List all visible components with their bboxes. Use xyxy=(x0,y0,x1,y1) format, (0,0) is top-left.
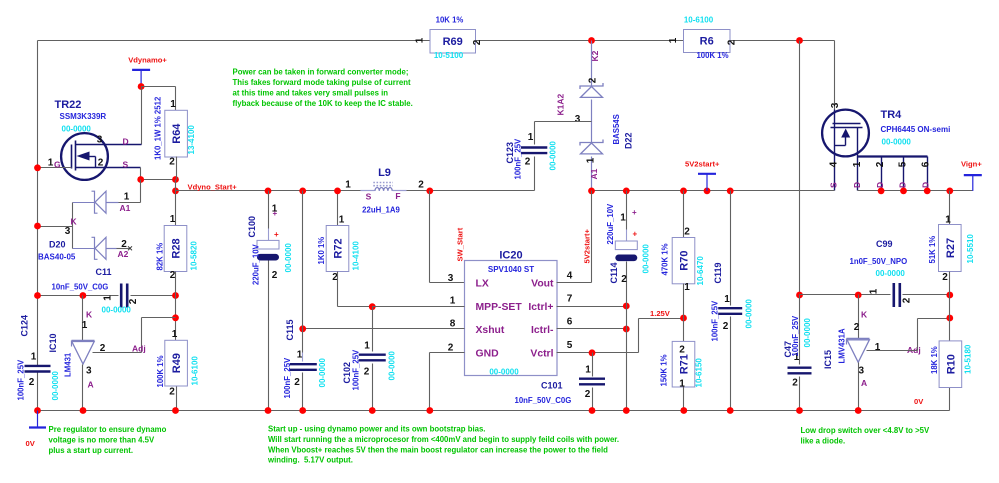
svg-text:D: D xyxy=(123,137,129,147)
svg-text:IC20: IC20 xyxy=(499,250,522,262)
svg-text:82K 1%: 82K 1% xyxy=(156,243,165,271)
svg-text:2: 2 xyxy=(169,157,175,168)
svg-text:2: 2 xyxy=(854,322,860,333)
svg-text:R6: R6 xyxy=(700,36,714,48)
svg-text:BAS40-05: BAS40-05 xyxy=(38,253,76,262)
svg-text:00-0000: 00-0000 xyxy=(745,299,754,329)
svg-text:470K 1%: 470K 1% xyxy=(661,243,670,275)
svg-text:2: 2 xyxy=(294,377,300,388)
svg-text:0V: 0V xyxy=(26,439,36,448)
svg-text:00-0000: 00-0000 xyxy=(51,371,60,401)
svg-text:R10: R10 xyxy=(945,354,957,374)
svg-text:L9: L9 xyxy=(378,167,391,179)
svg-text:When Vboost+ reaches 5V then t: When Vboost+ reaches 5V then the main bo… xyxy=(268,445,608,454)
svg-text:D: D xyxy=(852,182,862,188)
svg-text:Start up - using dynamo power: Start up - using dynamo power and its ow… xyxy=(268,425,485,434)
svg-text:2: 2 xyxy=(588,77,599,83)
svg-text:2: 2 xyxy=(169,387,175,398)
svg-text:8: 8 xyxy=(450,318,456,329)
svg-text:1K0_1W 1% 2512: 1K0_1W 1% 2512 xyxy=(154,96,163,160)
svg-text:C119: C119 xyxy=(713,262,723,283)
svg-text:10nF_50V_C0G: 10nF_50V_C0G xyxy=(515,396,572,405)
svg-text:Will start running the a micro: Will start running the a microprocesor f… xyxy=(268,435,619,444)
svg-text:2: 2 xyxy=(621,274,627,285)
svg-text:S: S xyxy=(829,182,839,188)
svg-text:220uF_10V: 220uF_10V xyxy=(606,203,615,245)
svg-text:1: 1 xyxy=(875,342,881,353)
svg-text:1n0F_50V_NPO: 1n0F_50V_NPO xyxy=(850,257,908,266)
svg-text:1: 1 xyxy=(945,215,951,226)
svg-text:A: A xyxy=(861,378,867,388)
svg-text:Power can be taken in forward: Power can be taken in forward converter … xyxy=(233,68,409,77)
svg-text:C99: C99 xyxy=(876,239,893,249)
svg-text:1: 1 xyxy=(528,132,534,143)
svg-text:C102: C102 xyxy=(342,362,352,384)
svg-text:10-5820: 10-5820 xyxy=(190,241,199,271)
svg-text:3: 3 xyxy=(859,366,865,377)
svg-text:2: 2 xyxy=(727,39,738,45)
svg-text:R69: R69 xyxy=(443,36,463,48)
svg-text:1: 1 xyxy=(124,192,130,203)
svg-text:R71: R71 xyxy=(679,354,691,374)
svg-text:00-0000: 00-0000 xyxy=(318,358,327,388)
svg-text:2: 2 xyxy=(29,377,35,388)
svg-text:00-0000: 00-0000 xyxy=(882,138,912,147)
svg-text:1: 1 xyxy=(82,320,88,331)
svg-text:100K 1%: 100K 1% xyxy=(696,51,728,60)
svg-text:D: D xyxy=(921,182,931,188)
svg-text:Vign+: Vign+ xyxy=(961,160,982,169)
svg-text:R28: R28 xyxy=(171,238,183,258)
svg-text:Vdynamo+: Vdynamo+ xyxy=(128,56,167,65)
svg-text:10nF_50V_C0G: 10nF_50V_C0G xyxy=(52,283,109,292)
svg-text:1: 1 xyxy=(339,215,345,226)
svg-text:10-5510: 10-5510 xyxy=(966,234,975,264)
svg-text:1: 1 xyxy=(679,379,685,390)
svg-text:10-6470: 10-6470 xyxy=(696,256,705,286)
svg-text:6: 6 xyxy=(921,161,932,167)
svg-text:C114: C114 xyxy=(609,262,619,283)
svg-text:2: 2 xyxy=(364,367,370,378)
svg-text:00-0000: 00-0000 xyxy=(284,243,293,273)
svg-text:3: 3 xyxy=(830,102,841,108)
svg-text:D: D xyxy=(875,182,885,188)
svg-text:1: 1 xyxy=(668,37,679,43)
svg-text:1: 1 xyxy=(170,99,176,110)
svg-text:Ictrl+: Ictrl+ xyxy=(528,302,553,313)
svg-text:R64: R64 xyxy=(171,123,183,144)
svg-text:GND: GND xyxy=(476,349,500,360)
svg-text:1: 1 xyxy=(869,288,880,294)
svg-text:2: 2 xyxy=(684,227,690,238)
svg-text:2: 2 xyxy=(902,297,913,303)
svg-text:CPH6445 ON-semi: CPH6445 ON-semi xyxy=(881,125,951,134)
svg-text:2: 2 xyxy=(98,158,104,169)
svg-text:3: 3 xyxy=(448,273,454,284)
svg-text:BAS54S: BAS54S xyxy=(612,114,621,144)
svg-text:6: 6 xyxy=(567,316,573,327)
svg-text:TR22: TR22 xyxy=(55,99,82,111)
svg-text:S: S xyxy=(366,192,372,202)
svg-text:2: 2 xyxy=(679,345,685,356)
svg-text:C11: C11 xyxy=(96,267,112,277)
svg-text:2: 2 xyxy=(128,298,139,304)
svg-text:10-5180: 10-5180 xyxy=(964,344,973,374)
svg-text:1K0 1%: 1K0 1% xyxy=(317,237,326,265)
svg-text:2: 2 xyxy=(792,378,798,389)
svg-text:00-0000: 00-0000 xyxy=(62,125,92,134)
svg-text:Vout: Vout xyxy=(531,279,554,290)
svg-text:F: F xyxy=(395,191,400,201)
svg-text:1: 1 xyxy=(586,157,597,163)
svg-text:1: 1 xyxy=(31,352,37,363)
svg-text:Adj: Adj xyxy=(132,344,146,354)
svg-text:00-0000: 00-0000 xyxy=(876,269,906,278)
svg-text:2: 2 xyxy=(170,270,176,281)
svg-text:A1: A1 xyxy=(120,203,131,213)
svg-text:13-4100: 13-4100 xyxy=(187,125,196,155)
svg-text:voltage is no more than 4.5V: voltage is no more than 4.5V xyxy=(49,436,156,445)
svg-text:18K 1%: 18K 1% xyxy=(930,346,939,374)
svg-text:winding. 5.17V output.: winding. 5.17V output. xyxy=(267,456,353,465)
svg-text:1: 1 xyxy=(103,295,114,301)
svg-text:10-4100: 10-4100 xyxy=(352,241,361,271)
svg-text:Vctrl: Vctrl xyxy=(530,349,553,360)
svg-text:1: 1 xyxy=(852,161,863,167)
svg-text:at this time and takes very sm: at this time and takes very small pulses… xyxy=(233,89,389,98)
svg-text:D20: D20 xyxy=(49,240,66,250)
svg-text:+: + xyxy=(632,208,637,217)
svg-text:flyback because of the 10K to: flyback because of the 10K to keep the I… xyxy=(233,99,413,108)
svg-text:LM431: LM431 xyxy=(64,352,73,377)
svg-text:1: 1 xyxy=(48,158,54,169)
svg-text:SPV1040 ST: SPV1040 ST xyxy=(488,265,534,274)
svg-text:SW_Start: SW_Start xyxy=(456,227,465,261)
svg-text:22uH_1A9: 22uH_1A9 xyxy=(362,206,400,215)
svg-text:2: 2 xyxy=(723,321,729,332)
svg-text:D: D xyxy=(898,182,908,188)
svg-text:MPP-SET: MPP-SET xyxy=(476,302,523,313)
svg-text:1: 1 xyxy=(415,37,426,43)
svg-text:K: K xyxy=(86,310,93,320)
svg-text:00-0000: 00-0000 xyxy=(803,318,812,348)
svg-text:2: 2 xyxy=(418,180,424,191)
svg-text:100nF_25V: 100nF_25V xyxy=(514,138,523,180)
svg-text:220uF_10V: 220uF_10V xyxy=(252,243,261,285)
svg-text:00-0000: 00-0000 xyxy=(642,244,651,274)
svg-text:G: G xyxy=(54,160,61,170)
svg-text:LX: LX xyxy=(476,279,489,290)
svg-text:100nF_25V: 100nF_25V xyxy=(352,349,361,391)
svg-text:C115: C115 xyxy=(285,319,295,340)
svg-text:+: + xyxy=(633,230,638,239)
svg-text:10-6100: 10-6100 xyxy=(191,356,200,386)
svg-text:1.25V: 1.25V xyxy=(650,309,671,318)
svg-text:1: 1 xyxy=(364,341,370,352)
svg-text:3: 3 xyxy=(86,366,92,377)
svg-text:5V2start+: 5V2start+ xyxy=(583,229,592,264)
svg-text:1: 1 xyxy=(585,365,591,376)
svg-text:2: 2 xyxy=(875,161,886,167)
svg-text:R72: R72 xyxy=(333,238,345,258)
svg-text:10-6150: 10-6150 xyxy=(695,358,704,388)
svg-text:0V: 0V xyxy=(914,397,924,406)
svg-text:C101: C101 xyxy=(541,381,563,391)
svg-text:100nF_25V: 100nF_25V xyxy=(711,300,720,342)
svg-text:00-0000: 00-0000 xyxy=(102,306,132,315)
svg-text:A1: A1 xyxy=(589,168,599,179)
svg-text:3: 3 xyxy=(575,114,581,125)
svg-text:5: 5 xyxy=(567,340,573,351)
svg-text:4: 4 xyxy=(829,161,840,167)
svg-text:R70: R70 xyxy=(679,251,691,271)
svg-text:1: 1 xyxy=(170,214,176,225)
svg-text:K2: K2 xyxy=(590,50,600,61)
svg-text:D22: D22 xyxy=(624,132,634,149)
svg-text:plus a start up current.: plus a start up current. xyxy=(49,446,133,455)
svg-text:10K 1%: 10K 1% xyxy=(436,16,464,25)
svg-text:2: 2 xyxy=(525,157,531,168)
svg-text:1: 1 xyxy=(724,294,730,305)
svg-text:1: 1 xyxy=(297,350,303,361)
svg-text:00-0000: 00-0000 xyxy=(549,141,558,171)
svg-text:A: A xyxy=(88,380,94,390)
svg-text:C100: C100 xyxy=(247,216,257,238)
svg-text:100nF_25V: 100nF_25V xyxy=(791,315,800,357)
svg-text:2: 2 xyxy=(272,270,278,281)
svg-text:R27: R27 xyxy=(945,238,957,258)
svg-text:3: 3 xyxy=(65,226,71,237)
svg-text:1: 1 xyxy=(684,282,690,293)
svg-text:K: K xyxy=(861,310,868,320)
svg-text:5: 5 xyxy=(898,161,909,167)
svg-text:100nF_25V: 100nF_25V xyxy=(283,357,292,399)
svg-text:like a diode.: like a diode. xyxy=(801,437,846,446)
svg-text:+: + xyxy=(274,230,279,239)
svg-text:2: 2 xyxy=(472,39,483,45)
svg-text:00-0000: 00-0000 xyxy=(388,351,397,381)
svg-text:2: 2 xyxy=(585,389,591,400)
svg-text:2: 2 xyxy=(100,343,106,354)
svg-text:2: 2 xyxy=(942,272,948,283)
svg-text:10-5100: 10-5100 xyxy=(434,51,464,60)
svg-text:100nF_25V: 100nF_25V xyxy=(17,359,26,401)
svg-text:00-0000: 00-0000 xyxy=(489,368,519,377)
svg-text:This fakes forward mode taking: This fakes forward mode taking pulse of … xyxy=(233,78,411,87)
svg-text:C124: C124 xyxy=(20,315,30,337)
svg-text:51K 1%: 51K 1% xyxy=(928,236,937,264)
svg-text:5V2start+: 5V2start+ xyxy=(685,160,720,169)
svg-text:Xshut: Xshut xyxy=(476,325,505,336)
svg-text:A2: A2 xyxy=(118,249,129,259)
svg-text:SSM3K339R: SSM3K339R xyxy=(60,112,107,121)
svg-text:R49: R49 xyxy=(171,353,183,373)
svg-text:K1A2: K1A2 xyxy=(556,93,566,115)
svg-text:Low drop switch over <4.8V to: Low drop switch over <4.8V to >5V xyxy=(801,426,930,435)
svg-text:3: 3 xyxy=(97,135,103,146)
svg-text:4: 4 xyxy=(567,271,573,282)
svg-text:2: 2 xyxy=(448,342,454,353)
svg-text:TR4: TR4 xyxy=(881,109,903,121)
svg-text:10-6100: 10-6100 xyxy=(684,16,714,25)
svg-text:K: K xyxy=(71,217,78,227)
svg-text:Vdyno_Start+: Vdyno_Start+ xyxy=(188,182,238,191)
svg-text:1: 1 xyxy=(620,213,626,224)
svg-text:1: 1 xyxy=(172,329,178,340)
svg-text:Ictrl-: Ictrl- xyxy=(531,325,554,336)
svg-text:S: S xyxy=(123,160,129,170)
svg-text:1: 1 xyxy=(345,180,351,191)
svg-text:150K 1%: 150K 1% xyxy=(660,354,669,386)
svg-text:LMV431A: LMV431A xyxy=(838,328,847,363)
svg-text:+: + xyxy=(273,209,278,218)
svg-text:Pre regulator to ensure dynamo: Pre regulator to ensure dynamo xyxy=(49,425,167,434)
svg-text:IC10: IC10 xyxy=(48,333,58,352)
svg-text:100K 1%: 100K 1% xyxy=(156,355,165,387)
svg-text:7: 7 xyxy=(567,294,573,305)
svg-text:1: 1 xyxy=(450,296,456,307)
svg-text:IC15: IC15 xyxy=(823,350,833,369)
